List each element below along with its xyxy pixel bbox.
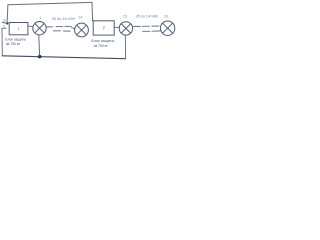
svg-text:0: 0	[3, 24, 5, 28]
protection block U1	[9, 23, 28, 35]
wire bottom neutral bus	[2, 56, 125, 59]
svg-text:1: 1	[40, 16, 42, 20]
node junction dot on bottom bus	[38, 55, 41, 58]
wire into lamp 14	[72, 28, 75, 29]
lamp EL1	[33, 22, 46, 35]
lamp EL14	[75, 23, 89, 37]
wire U1 output to lamp 1	[28, 26, 33, 27]
protection block U2	[93, 21, 114, 35]
svg-text:на 750 вт: на 750 вт	[94, 43, 108, 48]
wire into lamp 28	[159, 30, 161, 32]
wire dashed string 1 lower	[54, 30, 71, 32]
svg-text:28: 28	[164, 15, 168, 19]
wire neutral input stub	[2, 27, 6, 29]
svg-text:15: 15	[123, 14, 127, 18]
wire left drop from top bus to box 1 input	[6, 5, 9, 23]
lamp EL15	[119, 22, 132, 35]
wire U2 output to lamp 15	[114, 26, 119, 28]
wire dashed string 2 upper	[134, 25, 160, 28]
node phase junction at box 1 input	[6, 22, 8, 24]
lamp EL28	[160, 21, 174, 35]
svg-text:на 750 вт: на 750 вт	[6, 41, 21, 46]
wire top phase bus	[8, 2, 92, 4]
wire phase input stub	[2, 22, 7, 25]
svg-text:ф: ф	[3, 18, 6, 22]
wire left neutral vertical	[1, 28, 3, 56]
wire lamp 15 return drop	[124, 35, 126, 58]
wire right drop from top bus to box 2	[91, 2, 94, 21]
svg-text:14: 14	[78, 16, 82, 20]
svg-text:35 по 14=490: 35 по 14=490	[52, 16, 76, 21]
svg-text:35 по 14=490: 35 по 14=490	[136, 13, 159, 18]
wire dashed string 2 lower	[143, 30, 159, 32]
wire dashed string 1 upper	[46, 25, 71, 28]
wire lamp 1 return drop	[38, 35, 41, 56]
